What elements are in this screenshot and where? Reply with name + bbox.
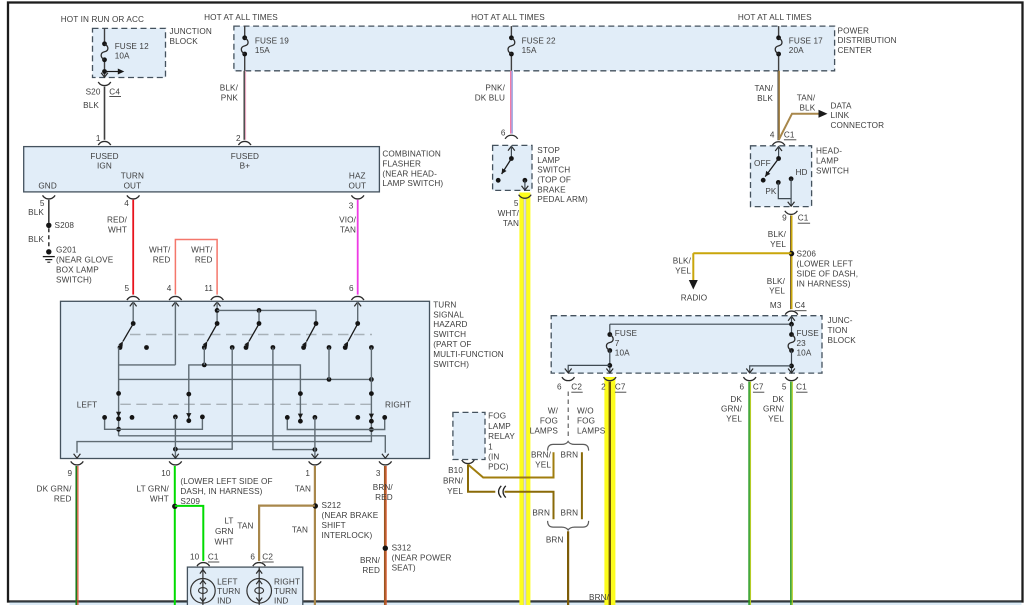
svg-text:B10: B10 (448, 466, 463, 475)
svg-text:PNK: PNK (221, 93, 239, 102)
svg-text:FUSE: FUSE (797, 329, 820, 338)
svg-text:15A: 15A (255, 46, 270, 55)
connector TS pin 5 (127, 296, 140, 300)
svg-text:C7: C7 (753, 383, 764, 392)
svg-text:9: 9 (782, 214, 787, 223)
svg-text:WHT: WHT (108, 225, 127, 234)
svg-text:LT GRN/: LT GRN/ (137, 485, 170, 494)
svg-text:W/: W/ (548, 407, 559, 416)
contact dots row 1 (144, 345, 149, 350)
svg-text:YEL: YEL (535, 460, 551, 469)
fuse 7 branch to C2 (568, 365, 610, 373)
svg-text:BRN: BRN (532, 508, 550, 517)
svg-text:7: 7 (615, 339, 620, 348)
power distribution center box (234, 26, 835, 71)
svg-text:DK GRN/: DK GRN/ (37, 485, 73, 494)
svg-text:YEL: YEL (726, 415, 742, 424)
svg-text:C2: C2 (262, 553, 273, 562)
svg-text:WHT/: WHT/ (191, 246, 213, 255)
svg-text:IND: IND (274, 597, 288, 605)
svg-text:M3: M3 (770, 301, 782, 310)
splice S312 (383, 546, 388, 551)
svg-text:IND: IND (217, 597, 231, 605)
blade from pin 11 (207, 324, 217, 342)
svg-text:BLOCK: BLOCK (170, 37, 199, 46)
svg-text:RADIO: RADIO (681, 293, 708, 302)
fuse 17 20A (776, 35, 781, 40)
svg-text:10: 10 (161, 469, 171, 478)
svg-text:TAN: TAN (292, 526, 308, 535)
v204 (203, 348, 205, 365)
svg-text:C1: C1 (208, 553, 219, 562)
svg-text:4: 4 (124, 199, 129, 208)
svg-text:BLOCK: BLOCK (828, 336, 857, 345)
blade 4 (307, 324, 317, 342)
pin 10 column (173, 415, 178, 420)
indicator lamp (258, 567, 260, 605)
svg-text:TURN: TURN (121, 172, 144, 181)
svg-text:10A: 10A (615, 349, 630, 358)
fuse F22 wire (510, 26, 512, 38)
bus y2 (119, 378, 372, 380)
svg-text:BLK: BLK (757, 94, 773, 103)
svg-text:G201: G201 (56, 246, 77, 255)
v232 to pin10 bus (175, 348, 232, 450)
svg-text:1: 1 (488, 442, 493, 451)
svg-text:RIGHT: RIGHT (274, 578, 300, 587)
svg-text:6: 6 (349, 284, 354, 293)
inline connector (( (499, 486, 502, 498)
svg-text:PDC): PDC) (488, 463, 509, 472)
svg-text:RED: RED (195, 255, 213, 264)
svg-text:5: 5 (782, 383, 787, 392)
svg-text:GND: GND (38, 181, 57, 190)
svg-text:PK: PK (765, 187, 777, 196)
wire BRN lower path with inline connector (468, 465, 495, 492)
svg-text:DK: DK (772, 395, 784, 404)
svg-text:6: 6 (740, 383, 745, 392)
svg-text:HD: HD (796, 168, 808, 177)
svg-text:WHT/: WHT/ (149, 246, 171, 255)
svg-text:VIO/: VIO/ (339, 215, 356, 224)
connector 6 C7 (743, 377, 756, 381)
svg-text:3: 3 (349, 201, 354, 210)
fuse F17 wire (778, 26, 780, 38)
wire BLK/YEL branch to radio (693, 252, 791, 254)
svg-text:FLASHER: FLASHER (382, 159, 421, 168)
headlamp switch box (751, 146, 812, 207)
svg-text:BRN/: BRN/ (360, 556, 381, 565)
svg-text:OUT: OUT (124, 181, 142, 190)
svg-text:C1: C1 (798, 214, 809, 223)
svg-text:2: 2 (236, 134, 241, 143)
svg-text:15A: 15A (522, 46, 537, 55)
svg-text:LAMP: LAMP (537, 156, 560, 165)
svg-text:TURN: TURN (217, 587, 240, 596)
svg-text:WHT: WHT (150, 495, 169, 504)
svg-text:11: 11 (204, 284, 213, 293)
wire BRN W/O path (581, 452, 583, 519)
svg-text:S208: S208 (55, 221, 75, 230)
wire BRN/YEL to W/FOG branch (468, 452, 554, 477)
svg-text:BLK: BLK (28, 235, 44, 244)
connector 5 C1 (785, 377, 798, 381)
svg-text:COMBINATION: COMBINATION (382, 150, 440, 159)
wire WHT/TAN highlighted (524, 199, 527, 605)
flasher pin 4 exit (127, 195, 140, 199)
footer box edge (10, 603, 1022, 605)
connector TS pin 11 (211, 296, 224, 300)
exit arrow to S20 (101, 73, 108, 77)
svg-text:BLK/: BLK/ (768, 230, 787, 239)
wire LT GRN/WHT branch to left turn ind (175, 506, 204, 561)
svg-text:SWITCH: SWITCH (537, 166, 570, 175)
svg-text:(LOWER LEFT: (LOWER LEFT (797, 260, 853, 269)
svg-text:3: 3 (376, 469, 381, 478)
svg-text:1: 1 (305, 469, 310, 478)
svg-text:HAZARD: HAZARD (433, 320, 467, 329)
svg-text:LAMP: LAMP (488, 422, 511, 431)
svg-text:PEDAL ARM): PEDAL ARM) (537, 195, 588, 204)
TS pin6 pivot wire (357, 301, 359, 323)
stop lamp switch pin 5 exit (524, 180, 526, 190)
svg-text:BOX LAMP: BOX LAMP (56, 265, 99, 274)
svg-text:TAN: TAN (340, 225, 356, 234)
svg-text:HOT IN RUN OR ACC: HOT IN RUN OR ACC (61, 15, 144, 24)
svg-text:BRN/: BRN/ (443, 476, 464, 485)
svg-text:(NEAR HEAD-: (NEAR HEAD- (382, 169, 437, 178)
connector C2 right turn ind (253, 563, 266, 567)
splice S212 (313, 503, 318, 508)
junction block (top left) (93, 28, 166, 77)
v272 to pin1 bus (273, 348, 315, 450)
wire PNK/DK BLU (510, 71, 512, 134)
svg-text:YEL: YEL (447, 487, 463, 496)
svg-text:TAN/: TAN/ (754, 84, 773, 93)
svg-text:W/O: W/O (577, 407, 594, 416)
svg-text:RED: RED (153, 255, 171, 264)
svg-text:CENTER: CENTER (838, 46, 872, 55)
svg-text:2: 2 (601, 383, 606, 392)
svg-text:SIDE OF DASH,: SIDE OF DASH, (797, 269, 859, 278)
fuse 7 exit (606, 369, 613, 373)
wire TAN branch to right turn ind (259, 506, 315, 561)
svg-text:TURN: TURN (274, 587, 297, 596)
wire RED/WHT (132, 200, 134, 295)
svg-text:FOG: FOG (540, 416, 558, 425)
wire BRN below brace (567, 531, 569, 605)
svg-text:23: 23 (797, 339, 807, 348)
svg-text:HEAD-: HEAD- (816, 147, 842, 156)
dashed detent line lower (120, 403, 371, 405)
svg-text:YEL: YEL (769, 287, 785, 296)
TS entry arrow (354, 302, 361, 306)
svg-text:S20: S20 (86, 87, 101, 96)
svg-text:10A: 10A (115, 52, 130, 61)
dashed option wire from 6 C2 (567, 392, 569, 437)
fuse 12 10A (102, 41, 107, 46)
svg-text:IGN: IGN (97, 162, 112, 171)
svg-text:C1: C1 (784, 131, 795, 140)
blade 3 (249, 324, 259, 342)
svg-text:C4: C4 (795, 301, 806, 310)
svg-text:DATA: DATA (831, 101, 853, 110)
svg-text:(IN: (IN (488, 453, 499, 462)
svg-text:C7: C7 (615, 383, 626, 392)
junction block (bottom right) box (551, 316, 822, 373)
svg-text:BRAKE: BRAKE (537, 185, 566, 194)
contact dots row 2 (130, 415, 135, 420)
svg-text:TAN/: TAN/ (797, 94, 816, 103)
svg-text:OUT: OUT (348, 181, 366, 190)
fuse 23 10A (791, 324, 793, 334)
svg-text:(TOP OF: (TOP OF (537, 176, 571, 185)
wire v118 chain (118, 348, 120, 436)
svg-text:BLK/: BLK/ (767, 277, 786, 286)
connector 6 C2 (562, 377, 575, 381)
svg-text:RED: RED (54, 495, 72, 504)
svg-text:PNK/: PNK/ (485, 84, 505, 93)
fuse 22 15A (509, 35, 514, 40)
fuse F19 wire (244, 26, 246, 38)
svg-text:OFF: OFF (754, 159, 771, 168)
svg-text:BRN/: BRN/ (531, 451, 552, 460)
wire WHT/RED loop (175, 240, 217, 295)
svg-text:MULTI-FUNCTION: MULTI-FUNCTION (433, 350, 504, 359)
svg-text:LINK: LINK (831, 111, 850, 120)
svg-text:FUSE 22: FUSE 22 (522, 36, 556, 45)
svg-text:FUSED: FUSED (231, 152, 259, 161)
svg-text:(NEAR POWER: (NEAR POWER (392, 553, 452, 562)
svg-text:6: 6 (501, 128, 506, 137)
connector TS pin 4 (169, 296, 182, 300)
wire DK GRN/RED (75, 466, 77, 605)
fuse 7 10A (609, 324, 611, 334)
bus y1 right + v188 + v300 (189, 365, 301, 421)
svg-text:SIGNAL: SIGNAL (433, 310, 464, 319)
dashed detent line upper (130, 334, 372, 336)
v329 (328, 348, 330, 380)
svg-text:BRN: BRN (546, 536, 564, 545)
TS pin 1 connector (309, 461, 322, 465)
svg-text:6: 6 (250, 553, 255, 562)
svg-text:S209: S209 (180, 497, 200, 506)
svg-text:HAZ: HAZ (349, 172, 366, 181)
bus y1 left (119, 364, 176, 366)
svg-text:LAMPS: LAMPS (577, 426, 606, 435)
svg-text:DASH, IN HARNESS): DASH, IN HARNESS) (180, 487, 262, 496)
svg-text:TAN: TAN (503, 219, 519, 228)
bus y4 right (287, 417, 384, 429)
highlight band WHT/TAN circuit (519, 193, 530, 605)
flasher pin 3 exit (351, 195, 364, 199)
svg-text:BRN: BRN (561, 508, 579, 517)
svg-text:RED: RED (375, 493, 393, 502)
svg-text:BRN/: BRN/ (589, 593, 610, 602)
svg-text:HOT AT ALL TIMES: HOT AT ALL TIMES (204, 13, 278, 22)
svg-text:DK: DK (730, 395, 742, 404)
svg-text:RIGHT: RIGHT (385, 401, 411, 410)
svg-text:INTERLOCK): INTERLOCK) (322, 531, 373, 540)
headlamp switch pin 9 exit (788, 202, 795, 206)
blade from pin 6 (348, 324, 358, 342)
TS pin 3 connector (379, 461, 392, 465)
svg-text:4: 4 (167, 284, 172, 293)
pin 1 column (313, 415, 318, 420)
svg-text:FOG: FOG (577, 416, 595, 425)
fuse 19 15A (242, 35, 247, 40)
svg-text:YEL: YEL (770, 240, 786, 249)
TS pin 10 connector (169, 461, 182, 465)
bus y4 left (105, 417, 203, 429)
svg-text:C2: C2 (571, 383, 582, 392)
svg-text:HOT AT ALL TIMES: HOT AT ALL TIMES (738, 13, 812, 22)
highlight band fuse7 BRN circuit (604, 377, 615, 605)
svg-text:RELAY: RELAY (488, 432, 515, 441)
splice S208 (46, 223, 51, 228)
blade from pin 5 (123, 324, 133, 342)
svg-text:FUSE 17: FUSE 17 (789, 36, 823, 45)
svg-text:LEFT: LEFT (217, 578, 238, 587)
wire DK GRN/YEL (C1) (790, 382, 792, 605)
lower brace (548, 521, 589, 530)
svg-text:DISTRIBUTION: DISTRIBUTION (838, 36, 897, 45)
svg-text:B+: B+ (240, 162, 251, 171)
svg-text:10: 10 (190, 553, 200, 562)
svg-text:GRN/: GRN/ (763, 405, 785, 414)
wire BLK/PNK (243, 71, 245, 140)
svg-text:STOP: STOP (537, 146, 560, 155)
svg-text:FUSE: FUSE (615, 329, 638, 338)
svg-text:10A: 10A (797, 349, 812, 358)
connector stop lamp switch pin 6 (505, 135, 518, 139)
svg-text:RED/: RED/ (107, 215, 128, 224)
fuse F12 wire (104, 28, 106, 43)
svg-text:TAN: TAN (237, 521, 253, 530)
svg-text:FUSE 12: FUSE 12 (115, 42, 149, 51)
connector C1 headlamp pin 4 (772, 142, 785, 146)
bus y5 to pin 3 (119, 436, 386, 453)
upper brace (548, 441, 589, 450)
svg-text:SWITCH: SWITCH (816, 166, 849, 175)
flasher pin 5 exit (43, 195, 56, 199)
JB internal bus (610, 323, 792, 325)
svg-text:S312: S312 (392, 544, 412, 553)
svg-text:S206: S206 (797, 250, 817, 259)
svg-text:LAMP: LAMP (816, 156, 839, 165)
svg-text:JUNC-: JUNC- (828, 316, 853, 325)
ground G201 (46, 249, 51, 254)
svg-text:(NEAR GLOVE: (NEAR GLOVE (56, 256, 114, 265)
bus stub arrow inside junction block (102, 69, 107, 74)
arrow to DATA LINK CONNECTOR (819, 110, 828, 118)
svg-text:BLK: BLK (83, 101, 99, 110)
fuse 23 branch to C7 (750, 366, 792, 373)
svg-text:YEL: YEL (675, 266, 691, 275)
svg-text:SHIFT: SHIFT (322, 521, 346, 530)
stop lamp switch internals (508, 146, 515, 150)
connector at flasher pin 2 (238, 141, 251, 145)
svg-text:9: 9 (68, 469, 73, 478)
wire BLK/YEL (791, 215, 793, 309)
wire VIO/TAN (357, 200, 359, 295)
TS entry arrow (172, 302, 179, 306)
svg-text:(LOWER LEFT SIDE OF: (LOWER LEFT SIDE OF (180, 477, 272, 486)
svg-text:POWER: POWER (838, 26, 870, 35)
JB entry arrow M3 (788, 316, 795, 320)
connector B10 (462, 460, 475, 464)
svg-text:LT: LT (224, 517, 233, 526)
svg-text:5: 5 (514, 199, 519, 208)
arrow to RADIO (689, 280, 698, 290)
splice S209 (172, 504, 177, 509)
splice S206 (789, 251, 794, 256)
svg-text:(NEAR BRAKE: (NEAR BRAKE (322, 511, 379, 520)
TS pin4 wire (174, 301, 176, 365)
connector TS pin 6 (351, 296, 364, 300)
wire TAN/BLK branch to data link connector (779, 114, 820, 140)
connector 2 C7 (604, 377, 617, 381)
svg-text:DK BLU: DK BLU (475, 93, 505, 102)
TS entry arrow (214, 302, 221, 306)
svg-text:LAMP SWITCH): LAMP SWITCH) (382, 179, 443, 188)
TS entry arrow (130, 302, 137, 306)
connector at flasher pin 1 (98, 141, 111, 145)
svg-text:FOG: FOG (488, 412, 506, 421)
svg-text:JUNCTION: JUNCTION (170, 27, 212, 36)
svg-text:SWITCH): SWITCH) (433, 360, 469, 369)
svg-text:IN HARNESS): IN HARNESS) (797, 279, 851, 288)
svg-text:RED: RED (362, 566, 380, 575)
svg-text:S212: S212 (322, 501, 342, 510)
indicator lamp (202, 567, 204, 605)
svg-text:20A: 20A (789, 46, 804, 55)
turn signal hazard switch box (61, 301, 430, 458)
wire BLK to S208 (48, 200, 50, 223)
connector C1 left turn ind (197, 563, 210, 567)
TS pin 9 connector (71, 461, 84, 465)
wire BLK S20 to flasher pin 1 (104, 87, 106, 140)
svg-text:TURN: TURN (433, 300, 456, 309)
v371 chain to pin 9 (77, 348, 371, 453)
svg-text:BLK/: BLK/ (673, 257, 692, 266)
headlamp switch internals (775, 147, 782, 151)
svg-text:6: 6 (557, 383, 562, 392)
wire BRN/RED pin 3 (384, 466, 386, 605)
wire BLK S208 to G201 (dashed) (48, 228, 50, 249)
svg-text:CONNECTOR: CONNECTOR (831, 121, 885, 130)
svg-text:GRN: GRN (215, 527, 234, 536)
svg-text:4: 4 (770, 131, 775, 140)
svg-text:YEL: YEL (768, 415, 784, 424)
svg-text:FUSED: FUSED (90, 152, 118, 161)
svg-text:WHT: WHT (214, 537, 233, 546)
svg-text:BRN: BRN (561, 451, 579, 460)
svg-text:SWITCH: SWITCH (433, 330, 466, 339)
svg-text:TION: TION (828, 326, 848, 335)
svg-text:(PART OF: (PART OF (433, 340, 471, 349)
svg-text:1: 1 (96, 134, 101, 143)
wire TAN pin 1 (314, 466, 316, 605)
svg-text:BLK/: BLK/ (220, 84, 239, 93)
svg-text:WHT/: WHT/ (498, 209, 520, 218)
svg-text:TAN: TAN (295, 485, 311, 494)
svg-text:SWITCH): SWITCH) (56, 275, 92, 284)
svg-text:BLK: BLK (799, 104, 815, 113)
svg-text:GRN/: GRN/ (721, 405, 743, 414)
wire BRN (fuse 7, highlighted) (609, 382, 611, 605)
svg-text:BRN/: BRN/ (373, 483, 394, 492)
